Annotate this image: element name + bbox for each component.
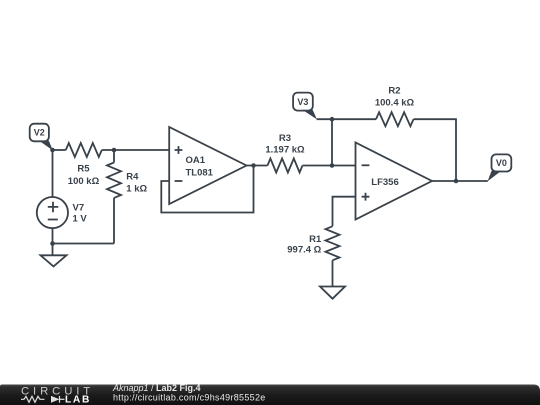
svg-text:V7: V7 bbox=[73, 203, 85, 214]
svg-text:TL081: TL081 bbox=[186, 168, 214, 179]
svg-text:LAB: LAB bbox=[65, 395, 91, 405]
svg-text:OA1: OA1 bbox=[186, 155, 206, 166]
svg-text:100 kΩ: 100 kΩ bbox=[68, 176, 100, 187]
svg-text:R2: R2 bbox=[388, 86, 400, 97]
svg-text:LF356: LF356 bbox=[371, 177, 398, 188]
svg-text:V0: V0 bbox=[496, 158, 507, 168]
svg-text:R4: R4 bbox=[126, 172, 139, 183]
svg-text:997.4 Ω: 997.4 Ω bbox=[287, 244, 321, 255]
svg-text:1.197 kΩ: 1.197 kΩ bbox=[265, 145, 305, 156]
svg-text:1 kΩ: 1 kΩ bbox=[126, 183, 147, 194]
svg-text:http://circuitlab.com/c9hs49r8: http://circuitlab.com/c9hs49r85552e bbox=[113, 392, 266, 402]
svg-text:R5: R5 bbox=[77, 164, 90, 175]
svg-text:R3: R3 bbox=[279, 133, 291, 144]
svg-text:V2: V2 bbox=[34, 128, 45, 138]
svg-text:V3: V3 bbox=[297, 97, 308, 107]
svg-text:1 V: 1 V bbox=[73, 214, 88, 225]
svg-text:100.4 kΩ: 100.4 kΩ bbox=[375, 98, 415, 109]
